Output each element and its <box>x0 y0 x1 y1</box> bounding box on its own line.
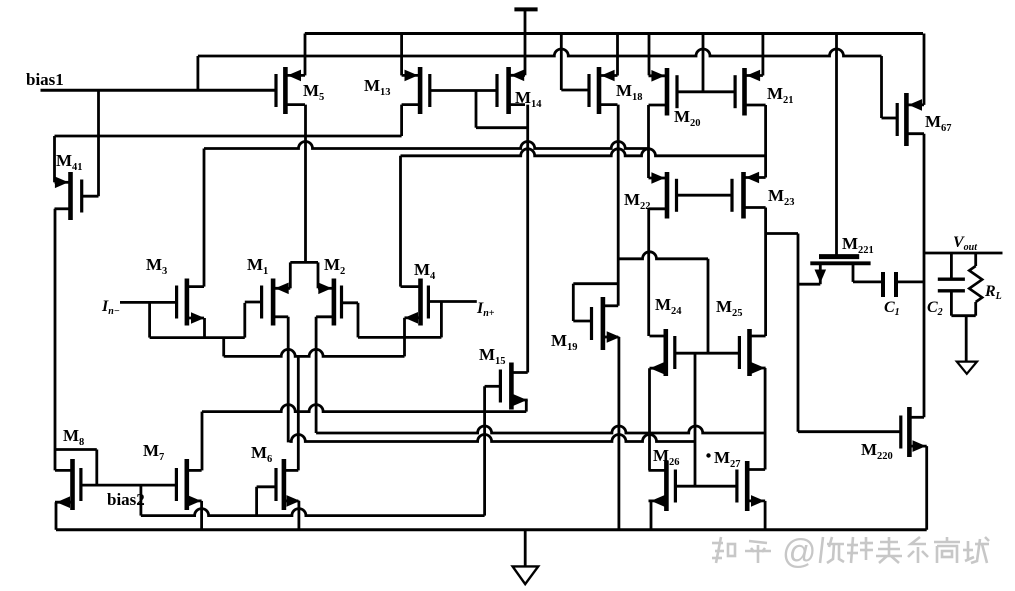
svg-text:bias1: bias1 <box>26 70 64 89</box>
wire M5 source to rail1 <box>304 34 307 76</box>
svg-text:@: @ <box>782 533 817 571</box>
node In- input wire <box>120 301 177 304</box>
wire M220 gate line <box>798 430 901 433</box>
label M41 <box>56 151 83 173</box>
ground symbol at output <box>957 316 977 374</box>
label M25 <box>716 297 743 319</box>
wire M19 source to ground rail <box>618 337 621 530</box>
label C1 <box>884 299 900 318</box>
wire M13 source to rail1 <box>400 34 403 76</box>
label M3 <box>146 255 167 277</box>
label M26 <box>653 446 680 468</box>
wire M67 source from rail1 <box>923 34 926 105</box>
transistor M1 <box>245 279 290 326</box>
label In+ <box>476 300 495 319</box>
transistor M41 <box>55 172 82 220</box>
wire M22 drain down to M24 drain <box>647 209 650 336</box>
transistor M23 <box>732 172 766 219</box>
label In- <box>101 298 120 317</box>
node In+ input wire <box>428 300 476 303</box>
ground symbol <box>513 530 539 584</box>
wire line y=258.8 to cascode gates <box>618 252 708 353</box>
wire tap line356 to M6 drain <box>297 356 300 470</box>
wire M18 drain down to M19 drain <box>617 105 620 306</box>
wire rail2 right drop to M67 gate <box>882 56 898 118</box>
wire M23 drain down to M25 drain <box>764 208 767 337</box>
svg-text:bias2: bias2 <box>107 490 145 509</box>
wire M20 drain down to M22 source <box>647 105 650 178</box>
wire M27 source to ground rail <box>764 501 767 530</box>
label M20 <box>674 107 701 129</box>
label M5 <box>303 81 324 103</box>
wire bias distribution rail (rail 2) <box>198 49 882 56</box>
transistor M3 <box>177 279 205 326</box>
resistor RL <box>969 253 982 316</box>
wire gates tap down to M26/M27 <box>694 353 697 486</box>
transistor M13 <box>402 67 430 114</box>
label M22 <box>624 190 651 212</box>
wire M23 drain branch right <box>766 234 798 432</box>
label M19 <box>551 331 578 353</box>
label RL <box>984 283 1002 302</box>
transistor M22 <box>649 172 733 219</box>
transistor M21 <box>735 68 766 116</box>
watermark <box>712 533 989 571</box>
transistor M24 <box>650 329 675 376</box>
wire M20 source to rail1 <box>648 34 651 76</box>
transistor M7 <box>176 459 201 510</box>
wire M18 gate from rail1 <box>561 34 589 91</box>
wire M20/M21 gates tap from rail1 <box>702 34 705 92</box>
wire M4 source down to line 356 <box>403 318 406 357</box>
wire M41 drain to M8 drain (left column) <box>54 209 57 471</box>
wire M41 source from line1 <box>53 136 56 182</box>
transistor M67 <box>897 93 924 146</box>
capacitor M221 (MOS cap) <box>798 257 871 285</box>
wire M2 gate to In+ branch <box>342 302 442 338</box>
label M1 <box>247 255 268 277</box>
capacitor C2 <box>938 253 976 316</box>
wire M1 drain down <box>287 317 290 443</box>
wire M220 source to ground rail <box>925 446 928 530</box>
wire M3 source down <box>203 318 206 338</box>
wire M67/output column <box>923 134 926 418</box>
label M18 <box>616 81 643 103</box>
wire rail2 left drop to bias1 <box>196 56 199 91</box>
wire M15 source down to line 411 <box>525 400 528 412</box>
transistor M19 <box>592 297 621 350</box>
wire M221 top from rail1 <box>835 34 838 256</box>
junction dot before M27 <box>706 453 710 457</box>
transistor M18 <box>589 67 618 114</box>
wire M13 drain to line1 <box>400 105 403 136</box>
transistor M5 <box>276 67 305 114</box>
wire lower mirror line (y=441.5) <box>290 435 696 442</box>
transistor M6 <box>276 459 300 510</box>
label M4 <box>414 260 436 282</box>
wire line y=356 (M3/M4 sources to M6 drain) <box>224 349 405 356</box>
wire M21 drain down to M23 source <box>764 105 767 178</box>
transistor M27 <box>737 461 765 511</box>
label M6 <box>251 443 272 465</box>
transistor M4 <box>401 279 429 326</box>
wire line y=411.6 (M7 drain / M15 source) <box>202 405 526 412</box>
label Vout <box>953 234 978 253</box>
transistor M220 <box>901 407 927 457</box>
transistor M25 <box>739 329 765 376</box>
wire M15 gate down to bias2 line <box>485 386 501 515</box>
transistor M26 <box>649 461 676 511</box>
transistor M8 <box>55 459 81 510</box>
wire M8 source to ground rail <box>55 502 58 530</box>
label M14 <box>515 88 542 110</box>
wire M2 drain down <box>315 317 318 433</box>
wire bias1 drop to M41 gate <box>82 90 99 196</box>
wire M14 drain down to M15 drain <box>526 105 529 373</box>
node Vout wire <box>924 252 1003 255</box>
label M23 <box>768 186 795 208</box>
wire M26 source to ground rail <box>650 501 653 530</box>
wire bias2 tap down <box>139 485 142 515</box>
label M13 <box>364 76 391 98</box>
wire M14 gate-drain diode <box>476 91 528 128</box>
transistor M20 <box>649 68 678 116</box>
label M8 <box>63 426 84 448</box>
label M220 <box>861 440 893 462</box>
label M15 <box>479 345 506 367</box>
wire M13-M14 gate link <box>430 89 497 92</box>
wire In- branch to M1 gate <box>150 302 245 337</box>
wire M19 gate-drain loop <box>573 284 618 321</box>
transistor M2 <box>316 279 341 326</box>
wire M26-M27 gate link <box>675 485 737 488</box>
wire M20-M21 gate link <box>677 90 735 93</box>
wire M3 drain up to line A <box>203 149 206 287</box>
wire M21 source to rail1 <box>762 34 765 76</box>
wire M6 gate drop <box>257 487 276 516</box>
label M27 <box>714 448 741 470</box>
transistor M14 <box>497 67 525 114</box>
power supply symbol <box>514 9 537 75</box>
wire M24 source down to M26 drain <box>648 368 651 470</box>
wire ground rail <box>56 528 927 531</box>
wire M8 gate-drain diode loop <box>55 450 97 486</box>
wire line1 M41/bias1/M5/M13 drains (y=136) <box>55 135 402 138</box>
label M2 <box>324 255 345 277</box>
label C2 <box>927 299 943 318</box>
wire M7 source to ground rail <box>200 501 203 530</box>
label M221 <box>842 234 874 256</box>
label bias2 <box>107 490 145 509</box>
wire M5 drain to diff pair tail <box>290 105 318 289</box>
label M21 <box>767 84 794 106</box>
wire bias2 extension line (y=515.6) <box>141 509 485 516</box>
wire M18 source to rail1 <box>616 34 619 76</box>
label bias1 <box>26 70 64 89</box>
wire VDD rail (top rail 1) <box>305 32 923 35</box>
capacitor C1 <box>853 272 924 297</box>
node bias1 wire <box>41 89 277 92</box>
wire line B (y=155.8) <box>401 149 766 156</box>
wire M6 source to ground rail <box>297 501 300 530</box>
wire bias2 gate line M8-M7 <box>81 484 176 487</box>
wire M7 drain up to line 411 <box>201 412 204 471</box>
transistor M15 <box>500 363 527 410</box>
wire M24-M25 gate link <box>675 352 740 355</box>
wire M4 drain up to line B <box>399 156 402 287</box>
label M7 <box>143 441 164 463</box>
wire line A (y=148.5) <box>204 142 649 149</box>
wire tap to line 356 <box>222 338 225 357</box>
wire M25 source down to M27 drain <box>764 368 767 470</box>
label M24 <box>655 295 682 317</box>
wire upper mirror line (y=433) <box>316 426 765 433</box>
label M67 <box>925 112 952 134</box>
